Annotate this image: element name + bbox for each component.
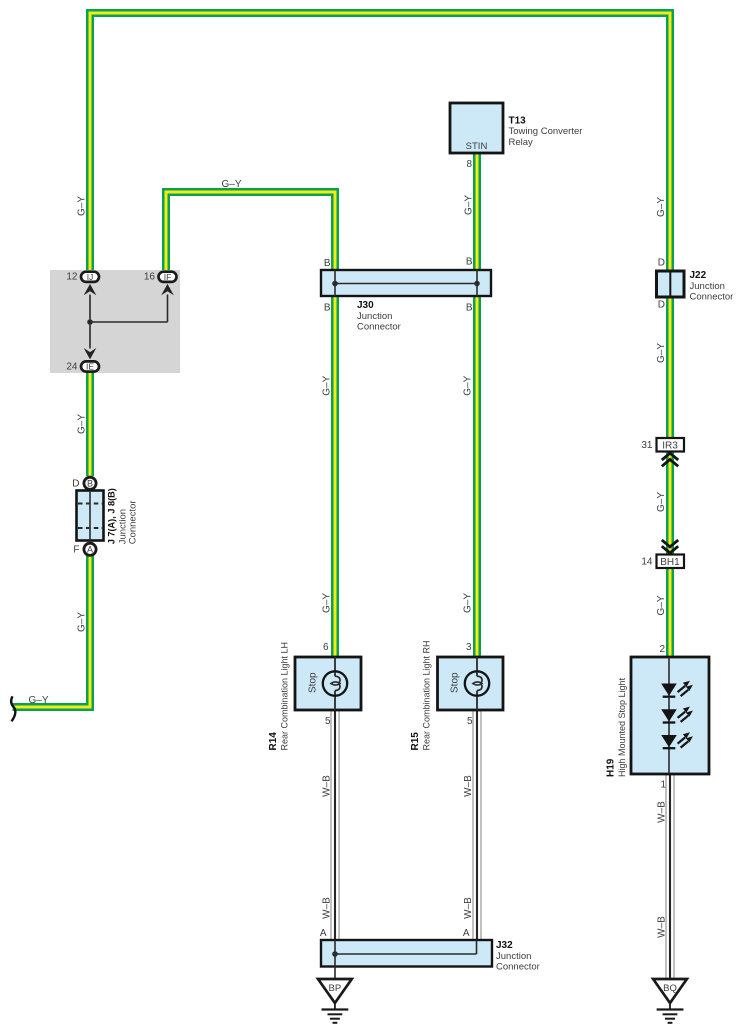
svg-text:5: 5	[467, 716, 473, 727]
svg-text:B: B	[87, 479, 93, 489]
svg-text:Stop: Stop	[308, 672, 319, 693]
svg-text:B: B	[466, 257, 473, 268]
svg-text:8: 8	[466, 159, 472, 170]
svg-text:IF: IF	[164, 272, 172, 282]
svg-text:R15: R15	[410, 732, 421, 751]
svg-text:G–Y: G–Y	[322, 375, 333, 395]
svg-text:G–Y: G–Y	[656, 595, 667, 615]
svg-text:A: A	[320, 928, 327, 939]
svg-text:F: F	[73, 545, 79, 556]
svg-text:G–Y: G–Y	[464, 195, 475, 215]
svg-text:J30: J30	[357, 300, 374, 311]
svg-text:3: 3	[466, 642, 472, 653]
svg-text:31: 31	[641, 440, 653, 451]
svg-text:G–Y: G–Y	[656, 343, 667, 363]
svg-text:B: B	[466, 303, 473, 314]
svg-text:Junction: Junction	[357, 311, 392, 322]
svg-text:Junction: Junction	[496, 951, 531, 962]
svg-text:J32: J32	[496, 940, 513, 951]
svg-text:Junction: Junction	[690, 281, 725, 292]
svg-text:High Mounted Stop Light: High Mounted Stop Light	[617, 677, 627, 777]
svg-text:G–Y: G–Y	[77, 414, 88, 434]
svg-text:A: A	[87, 545, 93, 555]
svg-text:IE: IE	[86, 362, 94, 372]
svg-text:J 7(A), J 8(B): J 7(A), J 8(B)	[107, 488, 117, 544]
svg-text:12: 12	[66, 272, 78, 283]
svg-text:D: D	[658, 300, 665, 311]
svg-text:G–Y: G–Y	[77, 612, 88, 632]
svg-text:Connector: Connector	[128, 500, 139, 544]
svg-text:Stop: Stop	[450, 672, 461, 693]
svg-text:BQ: BQ	[663, 983, 677, 994]
svg-text:IR3: IR3	[662, 441, 678, 452]
svg-text:BH1: BH1	[660, 557, 680, 568]
svg-text:W–B: W–B	[657, 801, 668, 823]
svg-text:T13: T13	[509, 116, 527, 127]
svg-text:STIN: STIN	[466, 141, 488, 152]
svg-text:16: 16	[144, 272, 156, 283]
svg-text:Relay: Relay	[509, 137, 534, 148]
svg-text:G–Y: G–Y	[77, 196, 88, 216]
svg-text:5: 5	[325, 716, 331, 727]
svg-text:IJ: IJ	[87, 272, 94, 282]
svg-text:W–B: W–B	[463, 897, 474, 919]
svg-text:W–B: W–B	[322, 897, 333, 919]
svg-text:24: 24	[66, 362, 78, 373]
svg-text:W–B: W–B	[322, 775, 333, 797]
svg-text:D: D	[72, 479, 79, 490]
svg-text:Connector: Connector	[357, 322, 401, 333]
svg-text:G–Y: G–Y	[463, 593, 474, 613]
svg-text:H19: H19	[606, 758, 617, 777]
svg-text:G–Y: G–Y	[656, 492, 667, 512]
svg-text:J22: J22	[690, 270, 707, 281]
svg-text:Towing Converter: Towing Converter	[509, 126, 583, 137]
svg-text:1: 1	[660, 780, 666, 791]
svg-text:A: A	[463, 928, 470, 939]
svg-text:BP: BP	[329, 983, 342, 994]
svg-text:R14: R14	[268, 732, 279, 751]
svg-text:D: D	[658, 258, 665, 269]
svg-text:2: 2	[659, 644, 665, 655]
svg-text:G–Y: G–Y	[221, 179, 241, 190]
svg-text:6: 6	[323, 642, 329, 653]
svg-text:Rear Combination Light LH: Rear Combination Light LH	[280, 642, 290, 751]
svg-text:G–Y: G–Y	[656, 197, 667, 217]
svg-text:Connector: Connector	[690, 292, 734, 303]
svg-text:Connector: Connector	[496, 962, 540, 973]
svg-text:W–B: W–B	[657, 916, 668, 938]
svg-text:B: B	[324, 303, 331, 314]
svg-text:W–B: W–B	[463, 775, 474, 797]
svg-text:G–Y: G–Y	[28, 695, 48, 706]
svg-text:G–Y: G–Y	[463, 375, 474, 395]
svg-text:14: 14	[641, 557, 653, 568]
svg-text:B: B	[324, 258, 331, 269]
svg-text:Rear Combination Light RH: Rear Combination Light RH	[422, 640, 432, 750]
svg-text:G–Y: G–Y	[322, 593, 333, 613]
